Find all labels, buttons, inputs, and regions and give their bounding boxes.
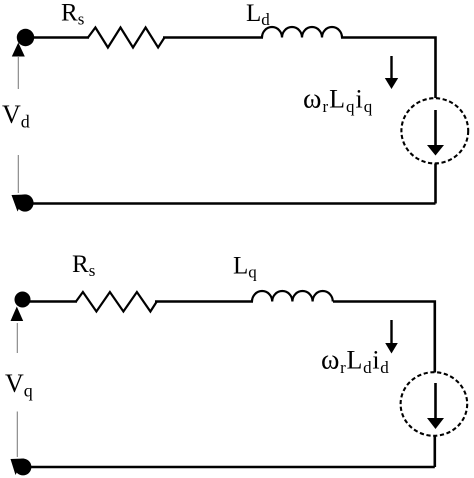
node A (top-left node of top circuit) [17, 29, 34, 46]
wire (current source to bottom-right corner) [434, 164, 437, 204]
node D (bottom-left node of bottom circuit) [11, 459, 32, 476]
wire (bottom return wire of bottom circuit) [22, 466, 435, 469]
inductor Ld (top circuit) [262, 27, 342, 38]
current arrow (small down arrow for wr*Lq*iq) [385, 56, 398, 89]
voltage arrow Vd (arrowhead + reference line) [12, 43, 25, 194]
node C (top-left node of bottom circuit) [15, 292, 31, 308]
wire (bottom return wire of top circuit) [25, 202, 436, 205]
resistor Rs (bottom circuit) [76, 292, 157, 312]
svg-text:ωrLqiq: ωrLqiq [303, 84, 373, 117]
inductor Lq (bottom circuit) [252, 291, 333, 302]
svg-text:Vd: Vd [2, 100, 30, 132]
voltage arrow Vq (arrowhead + reference line) [11, 307, 24, 458]
svg-text:Rs: Rs [61, 0, 84, 29]
wire (inductor Lq to top-right corner and down to current source, bottom circuit) [333, 302, 435, 373]
svg-text:Ld: Ld [246, 0, 270, 29]
current source U2 (dependent current source, bottom circuit) [401, 372, 468, 436]
wire (top wire: node to resistor Rs, bottom circuit) [24, 300, 77, 303]
wire (top wire: node to resistor Rs) [27, 36, 89, 39]
svg-text:Rs: Rs [72, 251, 95, 280]
wire (between resistor Rs and inductor Ld) [163, 36, 263, 39]
svg-text:Vq: Vq [5, 369, 33, 401]
svg-text:Lq: Lq [233, 253, 257, 282]
wire (between resistor Rs and inductor Lq) [155, 300, 253, 303]
wire (inductor Ld to top-right corner and down to current source) [341, 38, 436, 99]
svg-text:ωrLdid: ωrLdid [321, 345, 389, 378]
node B (bottom-left node of top circuit) [12, 194, 34, 211]
wire (current source to bottom-right corner, bottom circuit) [433, 436, 436, 467]
current arrow (small down arrow for wr*Ld*id) [385, 320, 398, 354]
current source U1 (dependent current source, top circuit) [401, 98, 468, 163]
resistor Rs (top circuit) [88, 28, 165, 48]
